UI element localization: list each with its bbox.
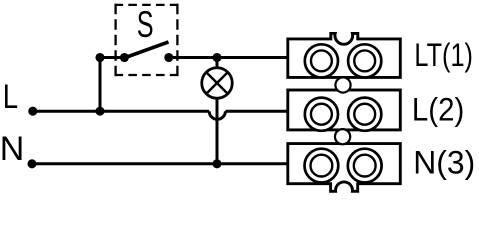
switch S label [137,3,154,45]
switch blade [124,42,168,58]
interlock circle between block 2 and 3 [335,129,350,144]
svg-text:LT(1): LT(1) [414,38,473,74]
wire switch to terminal LT [169,56,289,59]
junction dot lamp tap [212,53,221,62]
junction dot N start [27,159,36,168]
wire lamp drop [216,58,219,69]
junction dot L start [28,107,37,116]
svg-text:N: N [0,130,24,168]
switch S enclosure dashed box bottom edge [115,74,179,76]
switch S enclosure dashed box top edge [115,4,179,6]
terminal block 3 body with bottom interlock tab [288,144,401,192]
svg-text:N(3): N(3) [413,144,475,180]
wire N feed [32,162,289,165]
terminal L(2) right screw inner [354,104,375,125]
terminal N(3) right screw inner [354,155,376,177]
junction dot lamp to N [212,159,221,168]
lamp circle [202,68,233,99]
terminal block 1 body with top interlock tab [288,33,401,77]
switch S enclosure dashed box right edge [176,4,178,76]
wire L feed [33,110,209,113]
wire hop under lamp line [209,111,225,119]
lamp cross stroke 1 [206,72,227,93]
switch right contact [164,53,173,62]
node N label [0,130,24,168]
svg-text:L: L [3,77,18,116]
terminal N(3) left screw outer [305,149,339,183]
terminal N(3) right screw outer [348,149,382,183]
terminal LT(1) right screw inner [354,50,375,71]
terminal block 2 body [288,90,401,130]
wire L branch vertical [99,58,102,112]
svg-text:S: S [137,3,154,45]
label L(2) [412,91,464,128]
label LT(1) [414,38,473,74]
terminal L(2) left screw outer [305,98,338,131]
wire L feed right of hop [225,110,289,113]
junction dot L branch top [95,53,104,62]
switch left contact [120,53,129,62]
switch S enclosure dashed box left edge [114,4,116,76]
terminal N(3) left screw inner [311,155,333,177]
interlock circle between block 1 and 2 [335,77,350,92]
terminal LT(1) right screw outer [348,44,381,77]
node L label [3,77,18,116]
terminal LT(1) left screw inner [311,50,332,71]
junction dot L branch bottom [95,107,104,116]
wire lamp to N [216,98,219,164]
terminal L(2) right screw outer [348,98,381,131]
wire switch feed [100,56,124,59]
lamp cross stroke 2 [206,72,227,93]
terminal LT(1) left screw outer [305,44,338,77]
label N(3) [413,144,475,180]
terminal L(2) left screw inner [311,104,332,125]
svg-text:L(2): L(2) [412,91,464,128]
